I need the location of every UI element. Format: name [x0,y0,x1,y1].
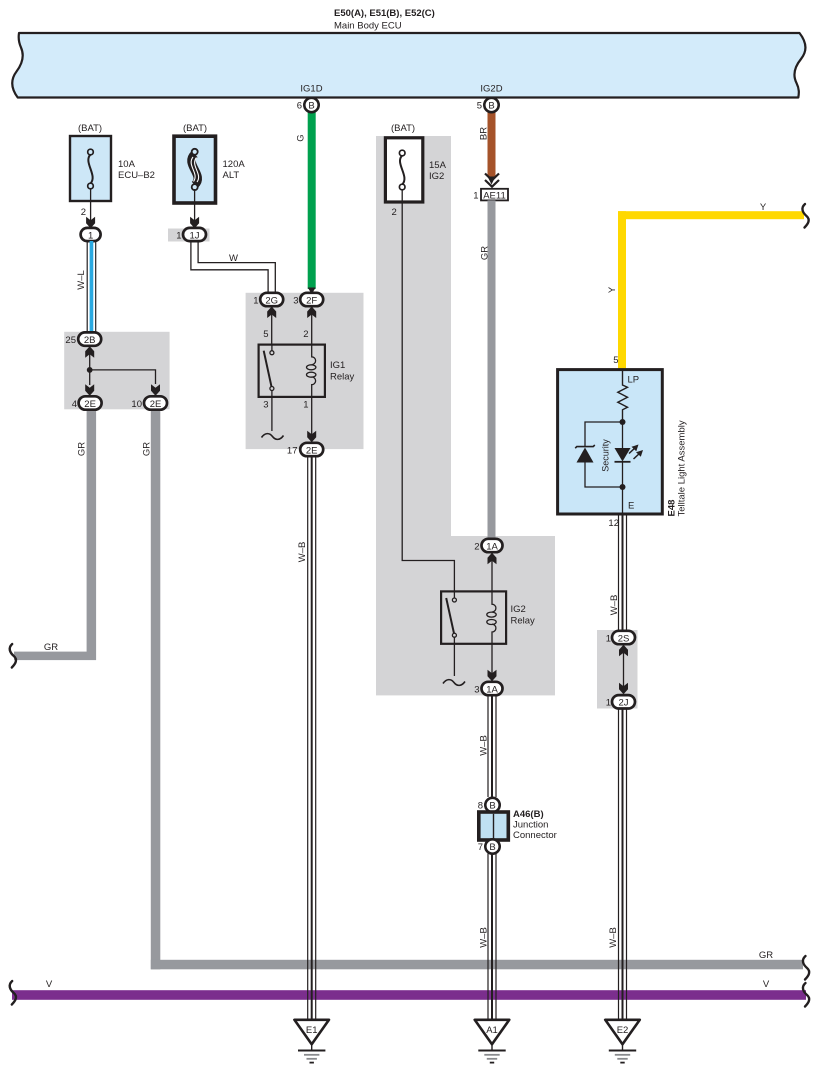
wire fuse3 to IG2 relay switch [402,189,454,598]
wire 2S to 2J [623,653,625,689]
svg-text:1: 1 [473,191,478,202]
svg-text:G: G [296,134,307,141]
AE11 arrow chevrons [485,174,499,187]
connector 1A pin 3 [482,682,503,695]
arrow down into 1A pin3 [488,670,497,682]
arrow up to 2B [85,346,94,358]
svg-text:2: 2 [81,207,86,218]
Main Body ECU band [12,33,805,98]
pin 6 circle B of IG1D [304,98,318,112]
wire Y (yellow) from right edge to E48 [618,211,804,219]
shaded connector group 2S/2J [597,630,638,709]
svg-text:Connector: Connector [513,830,557,841]
svg-text:Y: Y [760,202,767,213]
wire relay pin3 down [271,391,273,432]
node dot bottom [620,484,626,490]
svg-text:2: 2 [474,541,479,552]
arrow down into 2E pin10 [151,384,160,396]
junction node dot [87,367,93,373]
tear mark GR left [10,644,16,668]
svg-text:1: 1 [606,633,611,644]
arrow down into 2J [619,683,628,695]
wire junction to right branch [90,370,156,384]
svg-text:1J: 1J [189,230,199,241]
svg-text:10: 10 [131,399,142,410]
svg-text:W–B: W–B [608,927,619,948]
svg-text:5: 5 [477,101,482,112]
svg-text:ALT: ALT [223,170,240,181]
arrow up to 2G [267,307,276,319]
svg-text:AE11: AE11 [483,190,506,201]
wire junction down [89,370,91,385]
svg-text:(BAT): (BAT) [78,123,102,134]
svg-text:W–B: W–B [479,927,490,948]
svg-text:15A: 15A [429,160,447,171]
svg-text:6: 6 [297,101,302,112]
wire 2G to relay pin 5 [271,315,273,345]
connector AE11 [481,189,508,201]
arrow up to 1A pin2 [488,553,497,565]
svg-text:BR: BR [479,127,490,140]
svg-text:1A: 1A [486,684,498,695]
svg-text:8: 8 [478,801,483,812]
wire V (violet) bottom [12,990,806,1000]
svg-text:B: B [308,101,314,112]
node dot top [620,419,626,425]
connector 2S pin 1 [612,631,635,644]
svg-text:(BAT): (BAT) [183,123,207,134]
svg-text:2J: 2J [618,698,628,709]
wire 2F to relay pin 2 [311,315,313,345]
svg-text:3: 3 [293,295,298,306]
svg-text:IG2D: IG2D [480,84,502,95]
svg-text:Junction: Junction [513,820,548,831]
svg-text:E1: E1 [306,1025,318,1036]
svg-text:1: 1 [88,230,93,241]
LED diode [615,448,631,462]
svg-text:4: 4 [72,399,77,410]
open-end tilde IG2 [443,680,465,686]
svg-text:3: 3 [474,684,479,695]
ground E1 [294,1020,329,1063]
wire W-B 1A to junction connector [488,695,496,797]
svg-text:2: 2 [303,329,308,340]
svg-text:ECU–B2: ECU–B2 [118,170,155,181]
svg-text:LP: LP [628,375,640,386]
svg-text:2G: 2G [265,295,278,306]
arrow down into 2E pin4 [85,384,94,396]
wire fuse1 to connector 1 [90,188,92,222]
wire GR bottom horizontal [151,960,803,970]
svg-text:5: 5 [613,355,618,366]
svg-text:IG1: IG1 [330,360,345,371]
svg-text:E: E [628,501,634,512]
svg-text:1: 1 [606,698,611,709]
arrow down into 1J [190,217,199,229]
wire to pin E [622,487,624,514]
wire G (green) IG1D to 2F [308,108,316,289]
svg-text:GR: GR [142,442,153,456]
svg-text:1A: 1A [486,541,498,552]
shaded connector group 2B/2E [64,332,169,410]
telltale assembly E48 box [558,370,663,514]
svg-text:GR: GR [44,642,58,653]
connector 1A pin 2 [482,539,503,552]
junction connector A46(B) [479,812,509,840]
wire fuse2 to connector 1J [194,189,196,222]
zener diode [577,448,594,463]
svg-text:2: 2 [392,207,397,218]
wire W-B A46 to ground A1 [488,854,496,1021]
shaded group IG2 relay block [376,536,555,695]
ground E2 [605,1020,640,1063]
svg-text:Relay: Relay [330,372,355,383]
wire IG2 switch down [453,637,455,676]
resistor LP [618,371,628,422]
wire W-B E48 to 2S [619,514,627,631]
svg-text:2E: 2E [84,399,96,410]
svg-text:7: 7 [478,842,483,853]
tear mark V right [803,983,809,1007]
svg-text:W: W [229,253,238,264]
svg-text:B: B [489,801,495,812]
wire BR (brown) IG2D to AE11 [488,108,496,177]
connector 2E pin 10 [144,396,167,409]
wire W-B 2E pin17 to ground E1 [308,456,316,1020]
svg-text:2E: 2E [150,399,162,410]
svg-text:(BAT): (BAT) [391,123,415,134]
connector 1 [81,228,101,241]
svg-text:120A: 120A [223,159,246,170]
shaded group IG2 fuse strip [376,136,451,536]
connector 2B pin 25 [78,332,101,345]
shaded relay group IG1 [246,293,364,449]
wire GR AE11 to 1A [488,200,496,541]
svg-text:1: 1 [176,230,181,241]
svg-text:E2: E2 [617,1025,629,1036]
svg-text:2B: 2B [84,335,96,346]
svg-text:GR: GR [77,442,88,456]
IG1 relay coil [312,345,316,365]
wire GR thick left vertical (2E pin4 down) [87,406,97,660]
svg-text:10A: 10A [118,159,136,170]
IG1 relay switch [271,345,273,355]
ground A1 [475,1020,510,1063]
arrow down into 2E pin17 [307,431,316,443]
tear mark Y right [802,204,808,228]
svg-text:A1: A1 [486,1025,498,1036]
pin 7 circle B of A46 [485,839,499,853]
svg-text:17: 17 [287,445,298,456]
connector 2J pin 1 [612,695,635,708]
svg-text:IG1D: IG1D [300,84,322,95]
arrow up to 2S [619,645,628,657]
svg-text:W–L: W–L [76,270,87,290]
svg-text:Main Body ECU: Main Body ECU [334,21,402,32]
svg-text:B: B [489,842,495,853]
tear mark V left [10,981,16,1005]
svg-text:GR: GR [759,950,773,961]
tear mark GR right [803,956,809,980]
svg-text:B: B [488,101,494,112]
wire 2B to junction [89,354,91,370]
svg-text:25: 25 [65,335,76,346]
svg-text:2F: 2F [306,295,317,306]
IG2 relay coil [492,591,496,612]
svg-text:12: 12 [608,518,619,529]
svg-text:E50(A), E51(B), E52(C): E50(A), E51(B), E52(C) [334,8,435,19]
LED light arrows [629,447,637,454]
svg-text:Y: Y [607,286,618,293]
wire W from 1J to 2G [191,241,268,294]
svg-text:GR: GR [480,246,491,260]
wire W-B 2J to ground E2 [619,709,627,1021]
wire IG2 coil down [491,644,493,677]
svg-text:5: 5 [263,329,268,340]
shaded band behind 1J [168,229,210,242]
svg-text:2E: 2E [306,445,318,456]
pin 8 circle B of A46 [485,798,499,812]
arrow up to 2F [307,307,316,319]
svg-text:W–B: W–B [297,542,308,563]
svg-text:Relay: Relay [511,616,536,627]
svg-text:A46(B): A46(B) [513,809,544,820]
svg-text:W–B: W–B [609,595,620,616]
svg-text:2S: 2S [618,633,630,644]
svg-text:W–B: W–B [479,735,490,756]
wire GR left horizontal to edge [14,652,96,661]
branch wires [585,422,623,446]
svg-text:IG2: IG2 [429,171,444,182]
svg-text:V: V [763,979,770,990]
wire relay pin1 down [311,397,313,438]
svg-text:V: V [46,979,53,990]
connector 2E pin 4 [79,396,102,409]
relay box IG1 [259,345,325,397]
wire W-L from 1 to 2B [90,241,94,333]
connector 2F pin 3 [300,293,323,306]
svg-text:1: 1 [303,400,308,411]
IG2 relay switch [452,598,456,602]
svg-text:3: 3 [263,400,268,411]
pin 5 circle B of IG2D [484,98,498,112]
connector 2G pin 1 [260,293,283,306]
svg-text:1: 1 [253,295,258,306]
svg-text:Telltale Light Assembly: Telltale Light Assembly [677,420,688,516]
wire 1A to IG2 coil [491,561,493,592]
svg-text:Security: Security [601,439,611,472]
wire GR thick right vertical (2E pin10 down) [151,406,161,969]
open-end tilde IG1 [262,434,284,440]
connector 2E pin 17 [300,443,323,456]
arrow down into 1 [86,217,95,229]
relay box IG2 [441,591,506,643]
connector 1J [183,228,206,241]
svg-text:IG2: IG2 [511,604,526,615]
